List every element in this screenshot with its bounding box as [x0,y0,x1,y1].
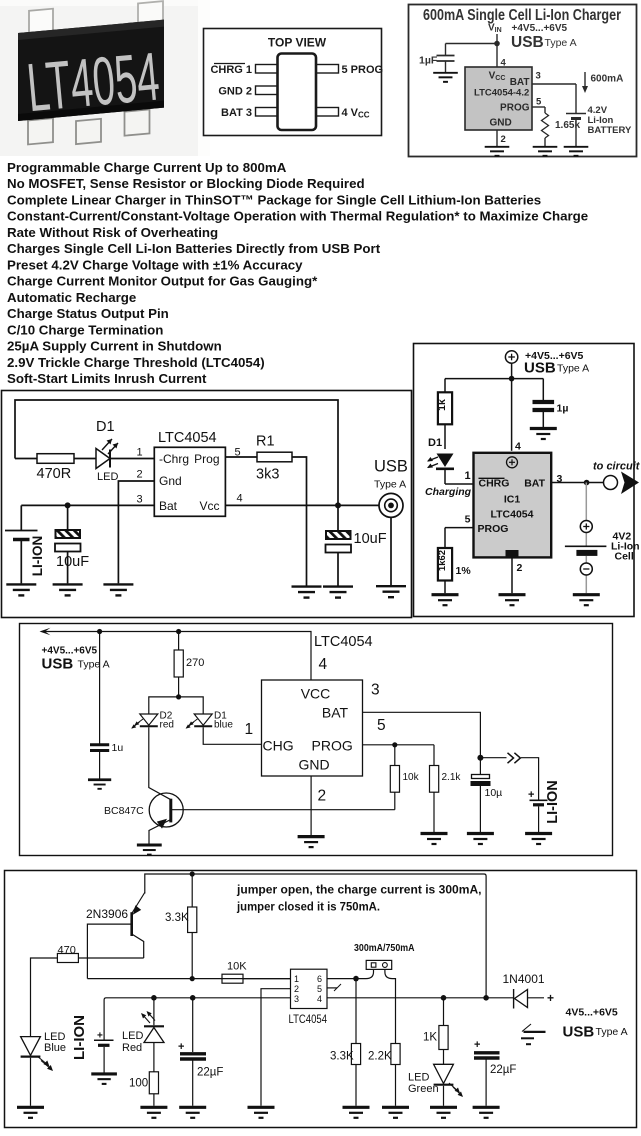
svg-text:BAT 3: BAT 3 [221,107,252,119]
svg-text:Complete Linear Charger in Thi: Complete Linear Charger in ThinSOT™ Pack… [7,193,541,208]
svg-text:+4V5...+6V5: +4V5...+6V5 [512,23,568,34]
svg-text:1: 1 [245,721,254,738]
svg-text:3: 3 [536,71,541,82]
svg-text:25µA Supply Current in Shutdow: 25µA Supply Current in Shutdown [7,339,222,354]
svg-text:4: 4 [317,994,322,1004]
svg-text:Soft-Start Limits Inrush Curre: Soft-Start Limits Inrush Current [7,371,207,386]
svg-text:USB: USB [563,1024,595,1041]
svg-text:470R: 470R [37,466,72,482]
svg-text:Gnd: Gnd [159,474,182,488]
svg-text:GND: GND [298,756,329,772]
svg-text:100: 100 [129,1078,148,1090]
svg-text:USB: USB [374,458,408,476]
svg-text:VCC: VCC [301,686,331,702]
svg-text:+: + [528,789,534,801]
svg-text:+: + [178,1041,184,1053]
svg-text:470: 470 [58,945,76,957]
svg-text:5: 5 [377,717,386,734]
svg-text:4: 4 [515,441,521,453]
svg-text:Red: Red [122,1042,142,1054]
svg-text:600mA: 600mA [591,74,624,85]
svg-text:3: 3 [557,473,563,485]
svg-text:1k: 1k [436,399,448,411]
svg-text:3.3K: 3.3K [165,912,189,924]
svg-text:1: 1 [294,974,299,984]
svg-text:3: 3 [371,682,380,699]
svg-text:2: 2 [501,134,506,145]
svg-text:USB: USB [511,34,544,51]
svg-text:1%: 1% [456,565,472,577]
svg-text:GND: GND [490,118,512,129]
svg-text:LT4054: LT4054 [24,39,162,126]
svg-text:Programmable Charge Current Up: Programmable Charge Current Up to 800mA [7,160,287,175]
svg-text:LTC4054: LTC4054 [158,430,217,446]
svg-text:+: + [474,1039,480,1051]
svg-text:2.9V Trickle Charge Threshold: 2.9V Trickle Charge Threshold (LTC4054) [7,355,265,370]
svg-text:Type A: Type A [374,479,406,491]
svg-text:1µF: 1µF [419,55,438,67]
svg-text:PROG: PROG [478,523,509,535]
svg-text:2: 2 [318,788,327,805]
svg-text:to circuit: to circuit [593,461,641,473]
svg-text:2: 2 [136,469,142,481]
svg-text:LED: LED [122,1030,143,1042]
svg-text:2N3906: 2N3906 [86,907,128,921]
svg-text:1u: 1u [112,742,124,754]
svg-text:5: 5 [536,97,542,108]
svg-text:Automatic Recharge: Automatic Recharge [7,290,136,305]
svg-text:BC847C: BC847C [104,805,144,817]
svg-text:Vcc: Vcc [199,499,219,513]
svg-text:2: 2 [517,562,523,574]
svg-text:LTC4054: LTC4054 [491,509,534,521]
svg-text:600mA Single Cell Li-Ion Charg: 600mA Single Cell Li-Ion Charger [423,7,621,24]
svg-text:CHRG 1: CHRG 1 [210,64,252,76]
svg-text:Type A: Type A [545,37,577,49]
svg-text:LED: LED [97,471,118,483]
svg-text:6: 6 [317,974,322,984]
svg-text:IC1: IC1 [504,494,521,506]
svg-text:jumper open, the charge curren: jumper open, the charge current is 300mA… [236,883,482,897]
svg-text:1k62: 1k62 [437,550,448,571]
svg-text:R1: R1 [256,434,275,450]
svg-text:USB: USB [42,656,74,673]
svg-text:Type A: Type A [557,363,589,375]
svg-text:5 PROG: 5 PROG [342,64,384,76]
svg-text:TOP VIEW: TOP VIEW [268,36,327,50]
svg-text:Green: Green [408,1083,439,1095]
svg-text:CHG: CHG [263,738,294,754]
svg-text:Bat: Bat [159,499,178,513]
svg-text:10uF: 10uF [56,554,89,570]
svg-text:2: 2 [294,984,299,994]
svg-text:Preset 4.2V Charge Voltage wit: Preset 4.2V Charge Voltage with ±1% Accu… [7,257,303,272]
svg-text:1µ: 1µ [557,403,569,415]
svg-text:blue: blue [214,720,233,731]
svg-text:BAT: BAT [322,704,349,720]
svg-text:No MOSFET, Sense Resistor or B: No MOSFET, Sense Resistor or Blocking Di… [7,176,365,191]
svg-text:4V5...+6V5: 4V5...+6V5 [566,1007,618,1019]
svg-text:3: 3 [294,994,299,1004]
svg-text:3: 3 [136,494,142,506]
svg-text:Type A: Type A [78,659,110,671]
svg-text:LTC4054: LTC4054 [289,1012,328,1026]
svg-text:+: + [547,991,554,1005]
svg-text:PROG: PROG [500,103,530,114]
svg-text:Cell: Cell [615,551,634,563]
svg-text:LI-ION: LI-ION [30,536,45,577]
svg-text:3.3K: 3.3K [330,1051,354,1063]
svg-text:Charging: Charging [425,486,472,498]
svg-text:LTC4054-4.2: LTC4054-4.2 [474,88,529,99]
svg-text:1.65k: 1.65k [555,120,580,131]
svg-text:1N4001: 1N4001 [503,972,545,986]
svg-text:VIN: VIN [488,23,502,35]
svg-text:Blue: Blue [44,1042,66,1054]
svg-text:Constant-Current/Constant-Volt: Constant-Current/Constant-Voltage Operat… [7,209,588,224]
svg-text:LI-ION: LI-ION [71,1015,88,1060]
svg-text:BATTERY: BATTERY [588,125,632,136]
svg-text:2.1k: 2.1k [442,772,462,783]
svg-text:USB: USB [524,360,556,377]
svg-text:GND 2: GND 2 [218,85,252,97]
svg-text:LI-ION: LI-ION [545,780,561,824]
svg-text:BAT: BAT [510,77,530,88]
svg-text:2.2K: 2.2K [368,1051,392,1063]
svg-text:LTC4054: LTC4054 [314,634,373,650]
svg-text:-Chrg: -Chrg [159,452,189,466]
svg-text:5: 5 [465,514,471,526]
svg-text:22µF: 22µF [197,1067,223,1079]
svg-text:5: 5 [317,984,322,994]
svg-text:22µF: 22µF [490,1064,516,1076]
svg-text:Charge Current Monitor Output: Charge Current Monitor Output for Gas Ga… [7,274,318,289]
svg-text:Charges Single Cell Li-Ion Bat: Charges Single Cell Li-Ion Batteries Dir… [7,241,381,256]
svg-text:1: 1 [464,470,470,482]
svg-text:jumper closed it is 750mA.: jumper closed it is 750mA. [236,900,380,914]
svg-text:3k3: 3k3 [256,467,279,483]
svg-text:Prog: Prog [194,452,219,466]
svg-text:10uF: 10uF [354,531,387,547]
svg-text:10K: 10K [227,961,247,973]
svg-text:10k: 10k [403,772,420,783]
svg-text:1K: 1K [423,1032,437,1044]
svg-text:Charge Status Output Pin: Charge Status Output Pin [7,306,169,321]
svg-text:PROG: PROG [312,738,353,754]
svg-text:Type A: Type A [596,1026,628,1038]
svg-text:270: 270 [186,657,204,669]
svg-text:4: 4 [319,656,328,673]
svg-text:4 VCC: 4 VCC [342,107,370,120]
svg-text:CHRG: CHRG [479,478,510,490]
svg-text:1: 1 [136,447,142,459]
svg-text:red: red [160,720,174,731]
svg-text:BAT: BAT [524,478,545,490]
svg-text:300mA/750mA: 300mA/750mA [354,943,415,954]
svg-text:10µ: 10µ [485,787,503,799]
svg-text:4: 4 [236,493,242,505]
svg-text:D1: D1 [96,419,115,435]
svg-text:LED: LED [408,1072,429,1084]
svg-text:C/10 Charge Termination: C/10 Charge Termination [7,322,163,337]
svg-text:Rate Without Risk of Overheati: Rate Without Risk of Overheating [7,225,218,240]
svg-text:D1: D1 [428,437,442,449]
